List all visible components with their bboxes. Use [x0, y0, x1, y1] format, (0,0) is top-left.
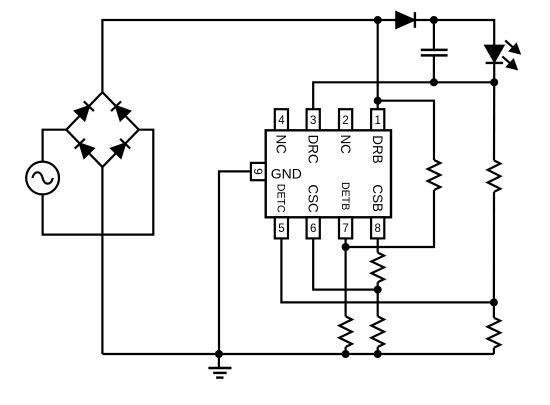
svg-text:5: 5 [278, 223, 284, 235]
pin 4 box [275, 109, 288, 130]
svg-text:4: 4 [278, 115, 285, 127]
wire: bridge bottom corner down to ground rail [101, 167, 103, 354]
svg-text:7: 7 [342, 223, 348, 235]
wire: R6 bottom to ground rail [493, 348, 495, 354]
pin 2 box [339, 109, 352, 130]
bridge rectifier diamond [66, 92, 139, 167]
svg-text:NC: NC [338, 135, 353, 155]
wire: R3 bottom to divider tap node [493, 192, 495, 303]
LED light arrow lower [502, 56, 516, 69]
svg-text:8: 8 [374, 223, 380, 235]
junction: ground rail / R5 [374, 350, 382, 358]
LED D2 [485, 46, 503, 83]
svg-text:DETC: DETC [275, 184, 287, 213]
pin 3 box [307, 109, 320, 130]
junction: ground rail / R4 [342, 350, 350, 358]
wire: R2 bottom through CSC node to resistor R5 [377, 282, 379, 316]
pin 5 box [275, 217, 288, 238]
bridge diode bottom-right [111, 139, 130, 158]
wire: R1 bottom down and left to DETB node [346, 190, 434, 247]
AC source V1 [26, 162, 59, 195]
wire: LED cathode node down to resistor R3 [493, 82, 495, 160]
wire: CSB pin 8 down to resistor R2 [377, 238, 379, 252]
bridge diode bottom-left [75, 139, 94, 158]
resistor R6 [488, 318, 501, 348]
svg-text:DETB: DETB [339, 182, 351, 210]
wire: pin 7 down to resistor R4 [345, 238, 347, 316]
pin 7 box [339, 217, 352, 238]
junction: top rail / capacitor branch [430, 16, 438, 24]
svg-text:DRB: DRB [370, 135, 385, 163]
wire: tap node to resistor R6 [493, 302, 495, 317]
wire: GND pin 9 left and down to ground rail [219, 171, 251, 354]
junction: CSC node [374, 286, 382, 294]
svg-text:2: 2 [342, 115, 348, 127]
junction: divider tap node [490, 298, 498, 306]
LED light arrow upper [505, 41, 519, 54]
junction: top rail / DRB branch [374, 16, 382, 24]
junction: capacitor bottom on DRC rail [430, 78, 438, 86]
IC U1 body [266, 130, 391, 217]
svg-text:9: 9 [251, 168, 263, 174]
wire: R5 bottom to ground rail [377, 347, 379, 354]
junction: DETB pin 7 node [342, 243, 350, 251]
svg-text:NC: NC [274, 135, 289, 155]
diode D1 [396, 12, 415, 28]
wire: DETC pin 5 down and right to divider tap [281, 238, 494, 302]
pin 9 box [251, 163, 266, 180]
wire: ground rail [102, 353, 494, 355]
pin 8 box [371, 217, 384, 238]
resistor R1 [428, 160, 441, 190]
svg-text:3: 3 [310, 115, 316, 127]
wire: DRB pin 1 up to top rail [377, 20, 379, 110]
capacitor C1 [421, 20, 448, 82]
resistor R5 [371, 316, 384, 347]
wire: AC source top to bridge left corner [43, 130, 67, 163]
junction: ground rail / ground symbol [215, 350, 223, 358]
svg-text:6: 6 [310, 223, 316, 235]
junction: DRB node [374, 97, 382, 105]
wire: bridge top corner up and along top rail to diode anode [102, 20, 396, 92]
wire: CSC pin 6 down and right to CSC node [313, 238, 378, 289]
ground symbol [208, 354, 231, 378]
svg-text:CSC: CSC [306, 184, 321, 213]
wire: DRC pin 3 up to LED cathode rail [313, 82, 494, 110]
resistor R4 [339, 316, 352, 347]
svg-text:DRC: DRC [306, 135, 321, 164]
wire: AC source bottom loop to bridge right corner [43, 130, 154, 235]
svg-text:GND: GND [271, 166, 302, 182]
wire: R4 bottom to ground rail [345, 347, 347, 354]
wire: diode D1 cathode to LED anode [415, 20, 494, 46]
svg-text:1: 1 [374, 115, 380, 127]
resistor R3 [488, 160, 501, 192]
wire: DRB node to resistor R1 top [378, 101, 434, 160]
pin 1 box [371, 109, 384, 130]
resistor R2 [371, 253, 384, 283]
bridge diode top-left [75, 101, 94, 120]
svg-text:CSB: CSB [370, 184, 385, 212]
pin 6 box [307, 217, 320, 238]
bridge diode top-right [111, 101, 130, 120]
junction: LED cathode node [490, 78, 498, 86]
